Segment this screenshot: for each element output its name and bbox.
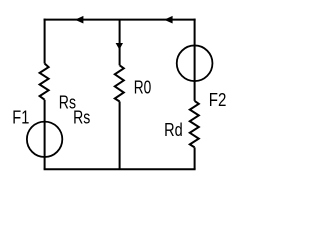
current source F2: [177, 45, 213, 81]
svg-text:Rs: Rs: [73, 108, 90, 128]
current source F1: [27, 122, 62, 157]
resistor Rd: [190, 101, 199, 147]
wire middle upper: [119, 20, 121, 66]
wire right upper: [194, 19, 196, 101]
wire left upper: [44, 19, 46, 64]
arrow current right on top wire: [164, 16, 173, 24]
wire bottom: [44, 168, 196, 170]
wire right lower: [194, 147, 196, 169]
resistor Rs: [40, 64, 49, 100]
arrow current left on top wire: [75, 16, 84, 24]
resistor R0: [115, 65, 124, 101]
svg-text:R0: R0: [134, 78, 151, 98]
wire middle lower: [119, 102, 121, 170]
svg-text:Rd: Rd: [164, 119, 183, 140]
wire top: [44, 19, 196, 21]
svg-text:F2: F2: [209, 89, 227, 110]
wire left lower: [44, 100, 46, 170]
svg-text:F1: F1: [12, 107, 29, 128]
arrow current down on middle wire: [116, 43, 123, 50]
